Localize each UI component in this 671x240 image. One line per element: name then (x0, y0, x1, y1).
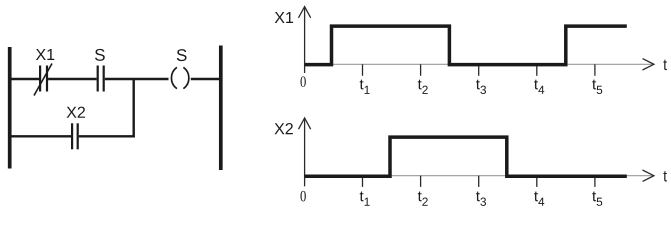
wire coil to right rail (191, 78, 220, 80)
X1 signal waveform (305, 26, 627, 65)
X1 value axis (304, 7, 306, 73)
X2 value axis arrowhead (299, 118, 311, 129)
X1 value axis arrowhead (299, 7, 311, 18)
X2 t axis label (663, 171, 666, 181)
contact X2 normally-open bars (71, 123, 73, 149)
contact S normally-open bars (97, 66, 99, 92)
X1 ticks t1-t5 (363, 64, 595, 76)
wire X2 to branch (79, 135, 135, 137)
label S (set contact) (95, 49, 105, 61)
wire branch vertical (parallel join) (132, 79, 134, 137)
wire S contact to coil (105, 78, 169, 80)
contact X1 slash (34, 64, 52, 96)
wire rung2 left rail to X2 (10, 135, 71, 137)
X1 origin 0 label (300, 76, 305, 87)
X2 ticks t1-t5 (363, 176, 595, 187)
X2 value axis (304, 118, 306, 186)
contact X1 normally-closed bars (39, 66, 41, 92)
X2 signal waveform (305, 137, 627, 176)
tick label t5 (592, 80, 602, 94)
X1 time axis arrowhead (643, 59, 654, 70)
right power rail (219, 46, 223, 171)
tick label t2 (418, 80, 428, 94)
tick label t4 (534, 192, 544, 206)
label X2 (ladder contact) (67, 107, 77, 118)
X2 axis name label (274, 123, 284, 134)
tick label t5 (592, 192, 602, 206)
X1 t axis label (663, 60, 666, 70)
tick label t4 (534, 80, 544, 94)
label X1 (ladder contact) (36, 49, 46, 60)
wire rung1 left rail to X1 (10, 78, 39, 80)
left power rail (8, 47, 12, 169)
X2 time axis arrowhead (643, 170, 654, 181)
X2 time axis (305, 175, 653, 177)
coil S parentheses (171, 67, 176, 88)
label S (coil) (177, 49, 187, 61)
wire X1 to S contact (48, 78, 96, 80)
X1 axis name label (275, 12, 285, 23)
tick label t3 (476, 192, 486, 206)
tick label t3 (476, 80, 486, 94)
tick label t2 (418, 192, 428, 206)
X1 time axis (305, 63, 653, 65)
tick label t1 (360, 192, 370, 206)
X2 origin 0 label (300, 191, 305, 202)
tick label t1 (360, 80, 370, 94)
